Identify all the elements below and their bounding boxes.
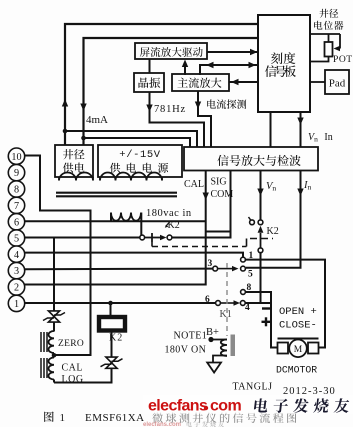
relay K1 core (gray bar) bbox=[231, 335, 236, 357]
svg-text:3: 3 bbox=[14, 266, 19, 277]
watermark band bbox=[143, 395, 353, 414]
relay coil K2 (box) bbox=[99, 317, 125, 331]
wire: K2-a mechanical link (dashed) bbox=[152, 239, 273, 247]
svg-text:180vac in: 180vac in bbox=[146, 208, 192, 219]
terminal 7 bbox=[8, 197, 24, 213]
svg-text:180V ON: 180V ON bbox=[165, 345, 207, 356]
wire: terminal 2 wire (joins CAL) bbox=[25, 284, 60, 286]
wire: terminal 5 to K2 switch / transformer primary bbox=[25, 237, 140, 239]
wire: SIG COM stub to CAL line bbox=[206, 231, 231, 233]
svg-text:K1: K1 bbox=[220, 309, 232, 320]
wire: SIG COM line down to K2 switch bbox=[173, 171, 231, 238]
label: OPEN + bbox=[279, 306, 317, 318]
terminal 9 bbox=[8, 164, 24, 180]
wire: terminal 10 to ZERO/CAL junction bbox=[25, 156, 91, 356]
wire: DIAC2 to CAL winding bottom bbox=[54, 368, 112, 382]
label: CLOSE- bbox=[279, 320, 317, 332]
node: junction on feedback bus B bbox=[81, 136, 86, 141]
terminal 4 bbox=[8, 246, 24, 262]
terminal 1 bbox=[8, 295, 24, 311]
triac D1 bbox=[43, 311, 65, 322]
terminal 6 bbox=[8, 214, 24, 230]
svg-text:TANGLJ: TANGLJ bbox=[233, 382, 273, 393]
wire: bus A junction to 信号放大与检波 (y=131) bbox=[65, 131, 197, 147]
svg-text:COM: COM bbox=[211, 189, 234, 200]
label: K2 (switch) bbox=[165, 220, 180, 231]
block +/-15V 供电电源 bbox=[98, 145, 182, 177]
svg-text:6: 6 bbox=[14, 217, 19, 228]
wire: terminal1 junction to K2 coil bbox=[110, 303, 112, 316]
wire: terminal 3 to K1 pin 3 bbox=[25, 268, 213, 271]
svg-text:elecfans.com: elecfans.com bbox=[143, 422, 181, 427]
svg-text:6: 6 bbox=[205, 295, 210, 305]
relay contact K2-b upper contact (from Vn) bbox=[258, 220, 263, 225]
relay contact K2-a link tick bbox=[151, 233, 153, 242]
relay contact K1 pin 5 bbox=[241, 266, 246, 271]
label: pin 3 bbox=[208, 259, 213, 269]
label: NOTE1 bbox=[174, 331, 208, 342]
svg-text:elecfans: elecfans bbox=[148, 398, 208, 415]
svg-text:5: 5 bbox=[14, 234, 19, 245]
block 晶振 bbox=[134, 73, 164, 92]
label: CAL bbox=[62, 363, 84, 374]
transformer core (ZERO) bbox=[41, 332, 47, 352]
svg-text:B+: B+ bbox=[206, 327, 219, 338]
relay contact K2-a wiper (arrow) bbox=[145, 235, 167, 241]
label: pin 1 bbox=[249, 251, 254, 261]
svg-text:ZERO: ZERO bbox=[58, 339, 84, 349]
wire: 主流放大 output (电流探测) to 信号放大与检波 bbox=[195, 91, 211, 147]
wire: K1 mechanical link (gray dashed) bbox=[226, 263, 228, 336]
label: CAL bbox=[184, 179, 204, 190]
wire: CAL winding to bottom wire bbox=[53, 380, 55, 383]
label: ZERO bbox=[58, 339, 84, 349]
label: plus bbox=[262, 317, 271, 326]
svg-text:Vn: Vn bbox=[266, 181, 276, 193]
svg-text:EMSF61XA: EMSF61XA bbox=[85, 412, 145, 424]
wire: POT wiper (arrow left) bbox=[334, 34, 341, 51]
svg-text:CAL: CAL bbox=[62, 363, 84, 374]
wire: In output (arrow down) to K1 pin 5 bbox=[246, 171, 304, 268]
wire: POT top lead bbox=[328, 34, 330, 42]
caption: 微球测井仪的信号流程图 (faded) bbox=[152, 412, 296, 422]
watermark: 电子发烧友 bbox=[254, 398, 349, 413]
wire: CAL output down to terminal 2 bbox=[24, 171, 209, 285]
transformer secondary winding (+/-15V) bbox=[100, 173, 162, 181]
wire: 刻度信号板 to Pad bbox=[310, 81, 325, 83]
terminal 2 bbox=[8, 279, 24, 295]
relay contact K2-b NC contact bbox=[249, 217, 255, 225]
label: minus bbox=[262, 307, 270, 309]
label: date 2012-3-30 bbox=[283, 386, 336, 397]
label: 180V ON bbox=[165, 345, 207, 356]
label: pin 5 bbox=[248, 270, 253, 280]
block 井径供电 bbox=[55, 145, 93, 177]
transformer secondary winding (井径供电) bbox=[59, 173, 93, 181]
wire: K1 pin 4 common to motor left bbox=[245, 303, 277, 348]
label: 井径电位器 bbox=[314, 9, 343, 30]
transformer core bbox=[56, 193, 177, 197]
svg-text:com: com bbox=[210, 398, 241, 415]
label: SIG bbox=[211, 177, 227, 188]
wire: 刻度信号板 Vn In to 信号放大与检波 (arrow down) bbox=[297, 112, 303, 147]
wire: 井径供电 feedback bus to 刻度信号板 (outer, y=24) bbox=[62, 24, 258, 145]
label: B+ bbox=[206, 327, 219, 338]
terminal 10 bbox=[8, 148, 24, 164]
wire: bus B junction to 信号放大与检波 (y=138) bbox=[84, 138, 191, 147]
svg-text:2: 2 bbox=[14, 283, 19, 294]
ground bbox=[207, 363, 221, 373]
wire: 刻度信号板 to 信号放大与检波 (left) bbox=[270, 112, 272, 147]
svg-text:DCMOTOR: DCMOTOR bbox=[276, 365, 317, 376]
transformer primary winding bbox=[111, 213, 141, 221]
wire: K2-b to K1 common (6-4 line) bbox=[260, 253, 262, 303]
wire: primary left lead bbox=[110, 213, 112, 222]
label: pin 8 bbox=[247, 283, 252, 293]
label: 781Hz bbox=[154, 104, 186, 115]
label: 180vac in bbox=[146, 208, 192, 219]
relay contact K1 pin 3 (wiper) bbox=[213, 266, 218, 271]
wire: branch from terminal 5 wire down to DIAC bbox=[53, 238, 55, 312]
node: junction terminal 1 wire to K2 coil bbox=[108, 301, 113, 306]
motor DCMOTOR bbox=[278, 339, 319, 358]
wire: 晶振 to 屏流放大驱动 bbox=[149, 59, 151, 73]
label: TANGLJ bbox=[233, 382, 273, 393]
wire: 晶振 output 781Hz to 信号放大与检波 bbox=[146, 92, 204, 147]
relay contact K2-b wiper (arrow up) bbox=[258, 226, 264, 248]
wire: B+ to K1 coil bbox=[211, 339, 227, 341]
block 信号放大与检波 bbox=[184, 147, 318, 171]
inductor K1 coil bbox=[221, 340, 227, 357]
relay contact K1 wiper 3-5 (arrow) bbox=[218, 266, 239, 272]
relay contact K2-a fixed contact bbox=[140, 235, 145, 240]
relay contact K1 wiper 6-4 (arrow) bbox=[220, 300, 240, 306]
svg-text:781Hz: 781Hz bbox=[154, 104, 186, 115]
node: B+ terminal bbox=[208, 337, 213, 342]
terminal 8 bbox=[8, 181, 24, 197]
wire: 主流放大 to 屏流放大驱动 (arrow up) bbox=[182, 60, 188, 76]
transformer core (CAL LOG) bbox=[41, 358, 47, 378]
svg-text:4mA: 4mA bbox=[86, 114, 108, 126]
label: K2 (coil) bbox=[109, 333, 123, 344]
label: COM bbox=[211, 189, 234, 200]
inductor ZERO winding bbox=[48, 331, 54, 353]
wire: K1 coil to ground bbox=[213, 356, 227, 363]
svg-text:1: 1 bbox=[14, 299, 19, 310]
svg-text:CLOSE-: CLOSE- bbox=[279, 320, 317, 332]
svg-text:SIG: SIG bbox=[211, 177, 227, 188]
svg-text:3: 3 bbox=[208, 259, 213, 269]
terminal 5 bbox=[8, 230, 24, 246]
label: Vn bbox=[266, 181, 276, 193]
wire: primary right lead bbox=[140, 213, 142, 236]
svg-text:In: In bbox=[303, 180, 312, 192]
resistor POT body bbox=[325, 42, 333, 57]
svg-text:4: 4 bbox=[14, 250, 19, 261]
wire: 主流放大 top to 刻度信号板 (double arrow, y=65) bbox=[200, 62, 258, 75]
svg-text:5: 5 bbox=[248, 270, 253, 280]
label: K1 bbox=[220, 309, 232, 320]
wire: 刻度信号板 to POT top bbox=[310, 33, 340, 35]
svg-text:4: 4 bbox=[245, 303, 250, 313]
relay contact K2-b lower contact bbox=[258, 248, 263, 253]
block 刻度信号板 bbox=[258, 15, 310, 112]
label: 电流探测 bbox=[207, 99, 246, 109]
label: DCMOTOR bbox=[276, 365, 317, 376]
wire: terminal 6 (180vac) to transformer primary and CAL line bbox=[25, 220, 206, 222]
block Pad bbox=[325, 70, 349, 94]
svg-text:M: M bbox=[294, 345, 303, 355]
label: Vn In bbox=[308, 132, 333, 144]
wire: terminal 1 to K1 pin 6 bbox=[25, 302, 216, 304]
watermark: elecfans.com bbox=[148, 398, 241, 415]
watermark: tiny bottom line bbox=[143, 421, 224, 427]
wire: DIAC1 to ZERO winding bbox=[53, 322, 55, 332]
svg-text:+/-15V: +/-15V bbox=[119, 149, 161, 161]
terminal 3 bbox=[8, 262, 24, 278]
svg-text:1: 1 bbox=[60, 412, 66, 424]
label: In bbox=[303, 180, 312, 192]
svg-text:NOTE1: NOTE1 bbox=[174, 331, 208, 342]
node: junction ZERO/CAL windings bbox=[52, 353, 57, 358]
svg-text:7: 7 bbox=[14, 201, 19, 212]
svg-text:8: 8 bbox=[14, 185, 19, 196]
block 主流放大 bbox=[172, 74, 229, 91]
wire: 刻度信号板 to 主流放大 right (arrow left, y=82) bbox=[229, 79, 258, 85]
inductor CAL LOG winding bbox=[48, 358, 54, 380]
wire: 刻度信号板 to 井径供电 (inner, y=38) bbox=[80, 38, 258, 145]
label: K2 (Vn switch) bbox=[267, 226, 279, 237]
relay contact K1 pin 1 bbox=[241, 257, 246, 262]
wire: K1 pin 1 to motor (right side) bbox=[245, 260, 325, 348]
svg-text:10: 10 bbox=[11, 152, 21, 163]
label: LOG bbox=[62, 374, 84, 385]
svg-text:Pad: Pad bbox=[329, 78, 346, 90]
node: junction on feedback bus A bbox=[63, 129, 68, 134]
label: 4mA bbox=[86, 114, 108, 126]
svg-text:POT: POT bbox=[333, 54, 353, 65]
relay contact K1 pin 4 bbox=[240, 301, 245, 306]
relay contact K1 pin 8 bbox=[241, 290, 246, 295]
svg-text:LOG: LOG bbox=[62, 374, 84, 385]
svg-text:K2: K2 bbox=[267, 226, 279, 237]
svg-text:9: 9 bbox=[14, 168, 19, 179]
wire: 屏流放大驱动 to 刻度信号板 (arrow right) bbox=[207, 49, 258, 55]
svg-text:OPEN +: OPEN + bbox=[279, 306, 317, 318]
label: pin 4 bbox=[245, 303, 250, 313]
wire: K1 pin 8 to common bbox=[245, 292, 271, 303]
svg-text:CAL: CAL bbox=[184, 179, 204, 190]
wire: K2 coil to DIAC2 bbox=[111, 332, 113, 357]
triac D2 bbox=[101, 357, 123, 368]
wire: Vn output (arrow down) to K2 contact bbox=[257, 171, 263, 220]
relay contact K2-a output contact bbox=[167, 235, 172, 240]
relay contact K1 pin 6 (wiper) bbox=[216, 301, 221, 306]
wire: terminal 4 to K1 pin 1 bbox=[25, 253, 243, 257]
block 屏流放大驱动 bbox=[135, 43, 207, 59]
label: pin 6 bbox=[205, 295, 210, 305]
caption: 图 1 EMSF61XA bbox=[44, 411, 144, 424]
wire: POT bottom to 刻度信号板 bbox=[310, 57, 329, 62]
label: POT bbox=[333, 54, 353, 65]
